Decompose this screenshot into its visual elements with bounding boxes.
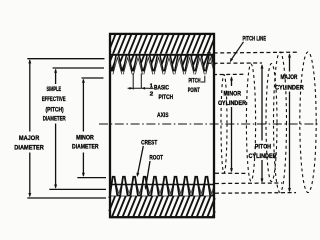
svg-text:CREST: CREST: [141, 140, 157, 147]
svg-text:DIAMETER: DIAMETER: [43, 115, 66, 122]
svg-text:DIAMETER: DIAMETER: [72, 143, 99, 150]
svg-text:PITCH: PITCH: [189, 78, 201, 85]
svg-text:DIAMETER: DIAMETER: [14, 144, 44, 151]
svg-text:CYLINDER: CYLINDER: [218, 100, 246, 107]
svg-text:ROOT: ROOT: [149, 155, 163, 162]
svg-text:AXIS: AXIS: [157, 112, 169, 119]
svg-text:MINOR: MINOR: [76, 134, 94, 141]
svg-text:MAJOR: MAJOR: [19, 135, 40, 142]
svg-text:2: 2: [150, 91, 154, 97]
svg-text:PITCH: PITCH: [159, 94, 174, 101]
svg-text:(PITCH): (PITCH): [45, 106, 63, 113]
svg-text:EFFECTIVE: EFFECTIVE: [42, 96, 67, 103]
svg-text:SIMPLE: SIMPLE: [47, 86, 62, 93]
svg-text:PITCH: PITCH: [255, 143, 272, 150]
svg-text:MINOR: MINOR: [224, 90, 242, 97]
svg-text:CYLINDER: CYLINDER: [249, 153, 277, 160]
svg-text:PITCH LINE: PITCH LINE: [243, 36, 267, 43]
svg-text:BASIC: BASIC: [154, 85, 169, 92]
svg-text:MAJOR: MAJOR: [281, 74, 298, 81]
svg-text:POINT: POINT: [188, 87, 200, 94]
svg-text:CYLINDER: CYLINDER: [275, 85, 304, 92]
